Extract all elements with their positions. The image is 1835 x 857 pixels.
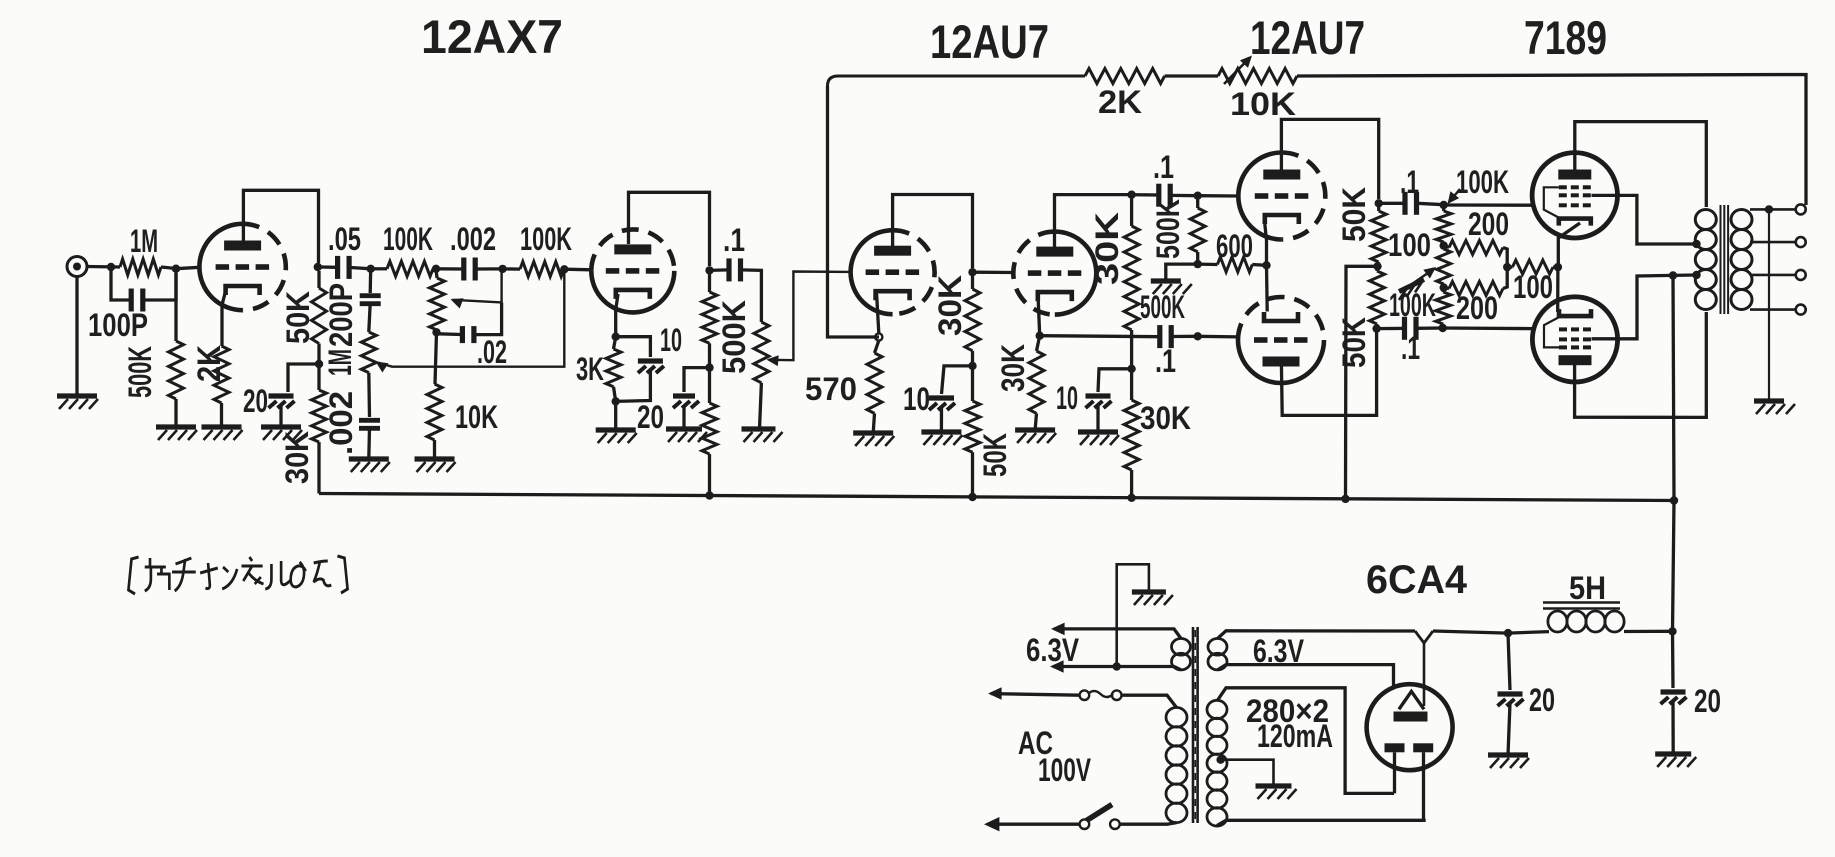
label 10 xyxy=(660,322,682,358)
wire xyxy=(1418,203,1444,204)
resistor 50K upper load xyxy=(1371,211,1386,262)
resistor 100K second xyxy=(520,262,564,277)
wire 10uF loop xyxy=(616,337,651,357)
resistor 1M input grid xyxy=(120,259,161,275)
wire xyxy=(1165,74,1218,77)
choke 5H underline xyxy=(1543,603,1620,609)
label 12AX7 title xyxy=(421,10,563,63)
wire xyxy=(710,268,729,272)
svg-text:.002: .002 xyxy=(450,221,496,257)
wire plate V4 xyxy=(1575,122,1707,207)
ground xyxy=(156,427,197,440)
svg-text:.1: .1 xyxy=(1153,149,1174,185)
resistor 50K plate load V1a xyxy=(312,288,327,344)
potentiometer P1 xyxy=(430,278,445,330)
svg-text:3K: 3K xyxy=(576,351,604,387)
wire xyxy=(1553,265,1558,268)
wire xyxy=(875,341,879,353)
label .1 xyxy=(1153,149,1174,185)
wiper 1M arrow xyxy=(376,269,565,372)
transformer OPT xyxy=(1695,205,1752,314)
label 100K xyxy=(1389,287,1436,323)
wire xyxy=(75,277,78,397)
node lower plate xyxy=(1372,324,1380,332)
wire xyxy=(1130,330,1133,369)
node Bplus bus end xyxy=(1670,496,1678,504)
label 120mA xyxy=(1257,718,1333,754)
wiper flag ground xyxy=(1399,267,1436,300)
wire HV CT xyxy=(1221,760,1274,786)
wire secondary lead 4 xyxy=(1750,308,1796,311)
node decouple 2 xyxy=(705,363,713,371)
wire xyxy=(1378,262,1379,266)
svg-text:200P: 200P xyxy=(323,283,359,347)
wire xyxy=(476,302,502,334)
terminal out 4 xyxy=(1796,305,1806,315)
node 7189 cathode junction xyxy=(1554,263,1562,271)
node stage2 cathode xyxy=(612,333,620,341)
label .002 xyxy=(450,221,496,257)
resistor 500K plate load stage2 xyxy=(702,292,717,343)
node mid upper xyxy=(1440,241,1448,249)
capacitor .05 coupling xyxy=(338,256,350,279)
wiper 10K arrow xyxy=(1224,56,1252,85)
label .1 xyxy=(723,222,745,258)
label 600 xyxy=(1216,228,1253,264)
wire xyxy=(1035,413,1036,430)
label .05 xyxy=(328,221,361,257)
svg-text:200: 200 xyxy=(1468,206,1509,242)
svg-text:.02: .02 xyxy=(477,334,507,370)
resistor 30K plate load V2a xyxy=(965,289,980,351)
svg-text:12AU7: 12AU7 xyxy=(930,15,1049,68)
ground xyxy=(596,430,637,443)
node upper 7189 grid xyxy=(1440,201,1448,209)
capacitor 20uF filter 2 xyxy=(1661,692,1687,704)
wire xyxy=(351,268,372,269)
capacitor 10uF decoupling 3 xyxy=(929,398,955,410)
label 6.3V right xyxy=(1253,633,1305,669)
ground xyxy=(1754,401,1795,414)
svg-text:200: 200 xyxy=(1456,290,1498,326)
wire xyxy=(1508,703,1510,755)
node bias junction xyxy=(1194,260,1202,268)
svg-text:30K: 30K xyxy=(1140,400,1191,436)
wiper arrow 100K upper xyxy=(1448,189,1461,204)
svg-text:100K: 100K xyxy=(520,221,572,257)
switch S1 xyxy=(1080,805,1120,830)
wire xyxy=(971,351,974,366)
wire xyxy=(614,387,616,402)
label 30K xyxy=(1089,212,1125,285)
node bus stage3 xyxy=(968,493,976,501)
label 100K xyxy=(520,221,572,257)
svg-text:1M: 1M xyxy=(130,223,158,259)
resistor decoupling stage2 xyxy=(702,403,717,454)
node Bplus PSU 1 xyxy=(1504,629,1512,637)
potentiometer 500K volume xyxy=(754,322,769,383)
wire NFB riser xyxy=(828,76,1086,337)
inductor choke 5H xyxy=(1548,611,1624,632)
svg-text:.002: .002 xyxy=(323,391,359,455)
label 6CA4 title xyxy=(1366,558,1468,602)
svg-text:120mA: 120mA xyxy=(1257,718,1333,754)
wire xyxy=(1503,267,1507,288)
capacitor .02 xyxy=(462,326,474,343)
wire xyxy=(1130,470,1133,498)
label 280x2 xyxy=(1246,693,1329,729)
label 50K xyxy=(280,291,316,344)
ground xyxy=(202,427,243,440)
label 20 xyxy=(1529,682,1555,718)
wire cathode V1a xyxy=(222,291,226,346)
node lower driver grid xyxy=(1194,332,1202,340)
node heater gnd tap xyxy=(1113,662,1121,670)
svg-text:100V: 100V xyxy=(1038,752,1091,788)
label 2K xyxy=(1098,84,1142,120)
svg-text:6.3V: 6.3V xyxy=(1026,632,1080,668)
ground xyxy=(666,429,707,442)
label 100K xyxy=(383,221,433,257)
label .02 xyxy=(477,334,507,370)
wire xyxy=(174,273,177,341)
winding heater right xyxy=(1208,639,1227,670)
resistor 200 upper xyxy=(1449,241,1503,255)
wire xyxy=(1265,265,1269,311)
wire xyxy=(317,442,320,494)
tube V3b 12AU7 lower driver xyxy=(1238,297,1324,383)
wire cathode V4 xyxy=(1558,223,1580,267)
resistor 30K decoupling 4 xyxy=(1124,400,1139,470)
potentiometer 100K lower xyxy=(1436,292,1451,324)
tube V3a 12AU7 upper driver xyxy=(1238,153,1325,240)
resistor 100 to cathode xyxy=(1512,260,1553,274)
label 10K xyxy=(455,399,498,435)
node V2a plate xyxy=(968,268,976,276)
wire heater right bottom xyxy=(1218,665,1394,689)
label 500K xyxy=(716,300,752,374)
wire xyxy=(220,403,223,427)
wire xyxy=(367,428,371,459)
node B xyxy=(432,265,440,273)
resistor 500K grid leak xyxy=(1190,208,1205,252)
ground xyxy=(1655,754,1696,767)
svg-text:100K: 100K xyxy=(1456,164,1509,200)
resistor 30K plate load V2b xyxy=(1124,226,1139,330)
svg-text:500K: 500K xyxy=(122,346,158,398)
wire xyxy=(1671,631,1675,688)
capacitor .1 lower driver in xyxy=(1160,325,1171,348)
label 20 xyxy=(243,383,268,419)
wire xyxy=(111,267,129,300)
wire xyxy=(971,452,974,497)
wire xyxy=(742,270,762,322)
label 30K xyxy=(932,275,968,336)
wire xyxy=(1196,252,1199,264)
node Bplus PSU 2 xyxy=(1668,627,1676,635)
node UL tap lower xyxy=(1692,271,1700,279)
wire xyxy=(161,267,176,269)
ground xyxy=(1256,786,1297,799)
svg-text:1M: 1M xyxy=(322,349,358,376)
wire xyxy=(433,440,436,459)
wire primary bottom xyxy=(1120,823,1177,825)
node D xyxy=(560,265,568,273)
wire cathode V1b xyxy=(616,294,618,337)
svg-text:100: 100 xyxy=(1513,269,1553,305)
node grid R junction xyxy=(172,265,180,273)
svg-text:6CA4: 6CA4 xyxy=(1366,558,1468,602)
tube V1a 12AX7 xyxy=(199,224,285,310)
label AC xyxy=(1018,725,1053,761)
label 200 xyxy=(1456,290,1498,326)
wire plate V3a xyxy=(1281,119,1378,199)
capacitor .002 xyxy=(464,258,475,281)
fuse F1 xyxy=(1080,690,1122,700)
label .1 xyxy=(1400,164,1419,200)
wire xyxy=(564,268,592,272)
wire xyxy=(477,267,503,270)
tube V4 7189 upper xyxy=(1532,153,1617,238)
svg-text:10: 10 xyxy=(903,381,930,417)
svg-text:50K: 50K xyxy=(1336,317,1372,368)
svg-text:5H: 5H xyxy=(1569,570,1606,606)
tube V6 6CA4 xyxy=(1367,684,1453,770)
wire xyxy=(616,370,651,401)
wire primary top xyxy=(1122,695,1177,707)
wire xyxy=(1442,242,1445,246)
label 10 xyxy=(1056,380,1078,416)
wire xyxy=(1379,202,1404,205)
wire xyxy=(1417,326,1443,330)
wire xyxy=(1198,194,1239,198)
wire cathode V3a xyxy=(1265,224,1267,265)
wire xyxy=(500,269,502,302)
node plate line V2b xyxy=(1127,191,1135,199)
ground xyxy=(415,459,456,472)
wire xyxy=(367,373,371,417)
svg-text:500K: 500K xyxy=(1150,199,1186,259)
wire xyxy=(435,332,437,384)
label 1M xyxy=(322,349,358,376)
ground xyxy=(1078,432,1119,445)
label 2K xyxy=(191,345,227,382)
svg-text:10K: 10K xyxy=(455,399,498,435)
svg-text:20: 20 xyxy=(1694,683,1721,719)
wire xyxy=(439,332,462,336)
label note one-channel-only (Japanese) xyxy=(128,556,347,594)
wire screen V4 xyxy=(1592,195,1696,244)
tube V1b 12AX7 xyxy=(591,229,674,312)
wire plate V1a xyxy=(243,190,318,263)
wire xyxy=(1166,264,1198,279)
resistor 2K feedback xyxy=(1085,69,1165,84)
label .1 xyxy=(1401,330,1420,366)
wiper volume arrow xyxy=(767,272,852,367)
svg-text:30K: 30K xyxy=(1089,212,1125,285)
node secondary ground tap xyxy=(1765,205,1773,213)
label 50K xyxy=(977,433,1013,477)
wire Bplus bus xyxy=(319,494,1674,501)
svg-text:570: 570 xyxy=(805,371,857,407)
wire xyxy=(1671,701,1674,754)
wire xyxy=(873,413,874,433)
label 6.3V left xyxy=(1026,632,1080,668)
wire plate V2b xyxy=(1055,195,1132,247)
node mid lower xyxy=(1440,283,1448,291)
wire xyxy=(1508,632,1549,634)
capacitor 100P xyxy=(131,289,143,312)
wire xyxy=(1443,326,1533,330)
wire xyxy=(503,267,520,271)
tube V5 7189 lower xyxy=(1532,297,1617,382)
wire xyxy=(1375,266,1379,271)
wire xyxy=(1444,203,1533,206)
input jack J1 xyxy=(67,257,87,277)
svg-text:7189: 7189 xyxy=(1524,11,1607,64)
ground xyxy=(1151,281,1192,294)
capacitor 20uF filter 1 xyxy=(1498,694,1524,706)
resistor 570 cathode xyxy=(867,353,882,413)
resistor 100 vertical xyxy=(1437,249,1451,284)
wire xyxy=(1508,633,1510,690)
node decouple 3 xyxy=(968,362,976,370)
wire xyxy=(433,267,436,270)
wire xyxy=(614,401,617,430)
ground xyxy=(1488,755,1529,768)
terminal out 2 xyxy=(1796,237,1806,247)
node below 3K xyxy=(612,397,620,405)
label 200P xyxy=(323,283,359,347)
wire plate V3b xyxy=(1281,332,1376,415)
resistor 30K cathode V2b xyxy=(1029,351,1044,413)
label 100V xyxy=(1038,752,1091,788)
wire xyxy=(708,368,711,403)
wire xyxy=(942,366,973,394)
wire NFB bus xyxy=(1297,75,1806,206)
wire xyxy=(436,267,462,271)
node A xyxy=(367,265,375,273)
wire xyxy=(279,405,282,427)
svg-text:.1: .1 xyxy=(1155,343,1176,379)
node UL tap upper xyxy=(1692,240,1700,248)
wire xyxy=(369,304,370,333)
label 5H xyxy=(1569,570,1606,606)
svg-text:2K: 2K xyxy=(1098,84,1142,120)
svg-text:12AU7: 12AU7 xyxy=(1250,11,1365,64)
label 3K xyxy=(576,351,604,387)
wire xyxy=(88,265,121,269)
svg-text:20: 20 xyxy=(1529,682,1555,718)
capacitor .002 to ground xyxy=(359,420,380,428)
svg-text:30K: 30K xyxy=(279,431,315,484)
node V2b cathode xyxy=(1036,332,1044,340)
capacitor .1 lower 7189 in xyxy=(1405,317,1417,340)
wire plate V5 xyxy=(1575,312,1707,417)
label 20 xyxy=(637,399,664,435)
wire heater right top xyxy=(1218,631,1416,639)
wire plate1 6CA4 xyxy=(1393,752,1396,793)
wire secondary lead 2 xyxy=(1750,241,1796,244)
potentiometer 100K upper xyxy=(1436,211,1451,242)
svg-text:30K: 30K xyxy=(932,275,968,336)
wire xyxy=(1037,336,1040,351)
svg-text:100K: 100K xyxy=(383,221,433,257)
label 7189 title xyxy=(1524,11,1607,64)
wire xyxy=(436,269,437,278)
capacitor 20uF decoupling 1 xyxy=(269,396,295,408)
svg-text:.1: .1 xyxy=(1401,330,1420,366)
wire xyxy=(971,366,974,401)
svg-text:50K: 50K xyxy=(280,291,316,344)
potentiometer 10K feedback xyxy=(1218,69,1297,84)
label 570 xyxy=(805,371,857,407)
wire xyxy=(1444,246,1449,248)
tube V2b 12AU7 xyxy=(1013,232,1096,315)
wire xyxy=(682,405,685,429)
wire xyxy=(708,270,711,292)
node HV CT xyxy=(1216,756,1224,764)
node upper driver grid xyxy=(1194,192,1202,200)
wire xyxy=(317,344,320,365)
wire xyxy=(1130,195,1133,226)
capacitor 10uF decoupling 4 xyxy=(1086,396,1112,408)
capacitor 10uF bypass stage2 xyxy=(638,361,664,373)
node 50K junction xyxy=(1373,262,1381,270)
capacitor 200P xyxy=(360,296,381,304)
label 100 xyxy=(1388,227,1431,263)
wire heater into tube xyxy=(1423,643,1426,706)
label 50K xyxy=(1336,187,1372,242)
wire heater gnd jog xyxy=(1117,564,1149,666)
ground xyxy=(349,459,390,472)
wire xyxy=(174,399,177,427)
terminal out 1 xyxy=(1796,204,1806,214)
capacitor .1 upper driver in xyxy=(1159,184,1170,207)
node E xyxy=(432,328,440,336)
wire AC line 2 xyxy=(984,817,1080,831)
wire xyxy=(971,276,974,289)
svg-text:100: 100 xyxy=(1388,227,1431,263)
svg-text:30K: 30K xyxy=(995,344,1031,392)
ground xyxy=(742,429,783,442)
capacitor .1 upper 7189 in xyxy=(1405,192,1417,215)
svg-text:2K: 2K xyxy=(191,345,227,382)
wire plate V1b xyxy=(629,192,710,266)
ground xyxy=(853,433,894,446)
label 50K xyxy=(1336,317,1372,368)
wire heater left top xyxy=(1051,623,1181,639)
wire xyxy=(1130,369,1133,400)
wire screen V5 xyxy=(1592,275,1696,339)
wire secondary ground drop xyxy=(1768,209,1770,400)
label 100 xyxy=(1513,269,1553,305)
svg-text:100P: 100P xyxy=(88,307,148,343)
winding primary left xyxy=(1166,708,1187,823)
node 200 junction xyxy=(1503,263,1511,271)
ground xyxy=(1132,592,1173,605)
wire xyxy=(1507,265,1512,268)
label 500K xyxy=(122,346,158,398)
resistor 200 lower xyxy=(1449,282,1503,296)
node cathode diamond xyxy=(875,333,882,340)
svg-text:20: 20 xyxy=(637,399,664,435)
winding HV right xyxy=(1207,700,1227,826)
label 10K xyxy=(1230,86,1296,122)
svg-text:500K: 500K xyxy=(1140,289,1185,325)
label 12AU7 title 1 xyxy=(930,15,1049,68)
node V1b plate xyxy=(705,266,713,274)
